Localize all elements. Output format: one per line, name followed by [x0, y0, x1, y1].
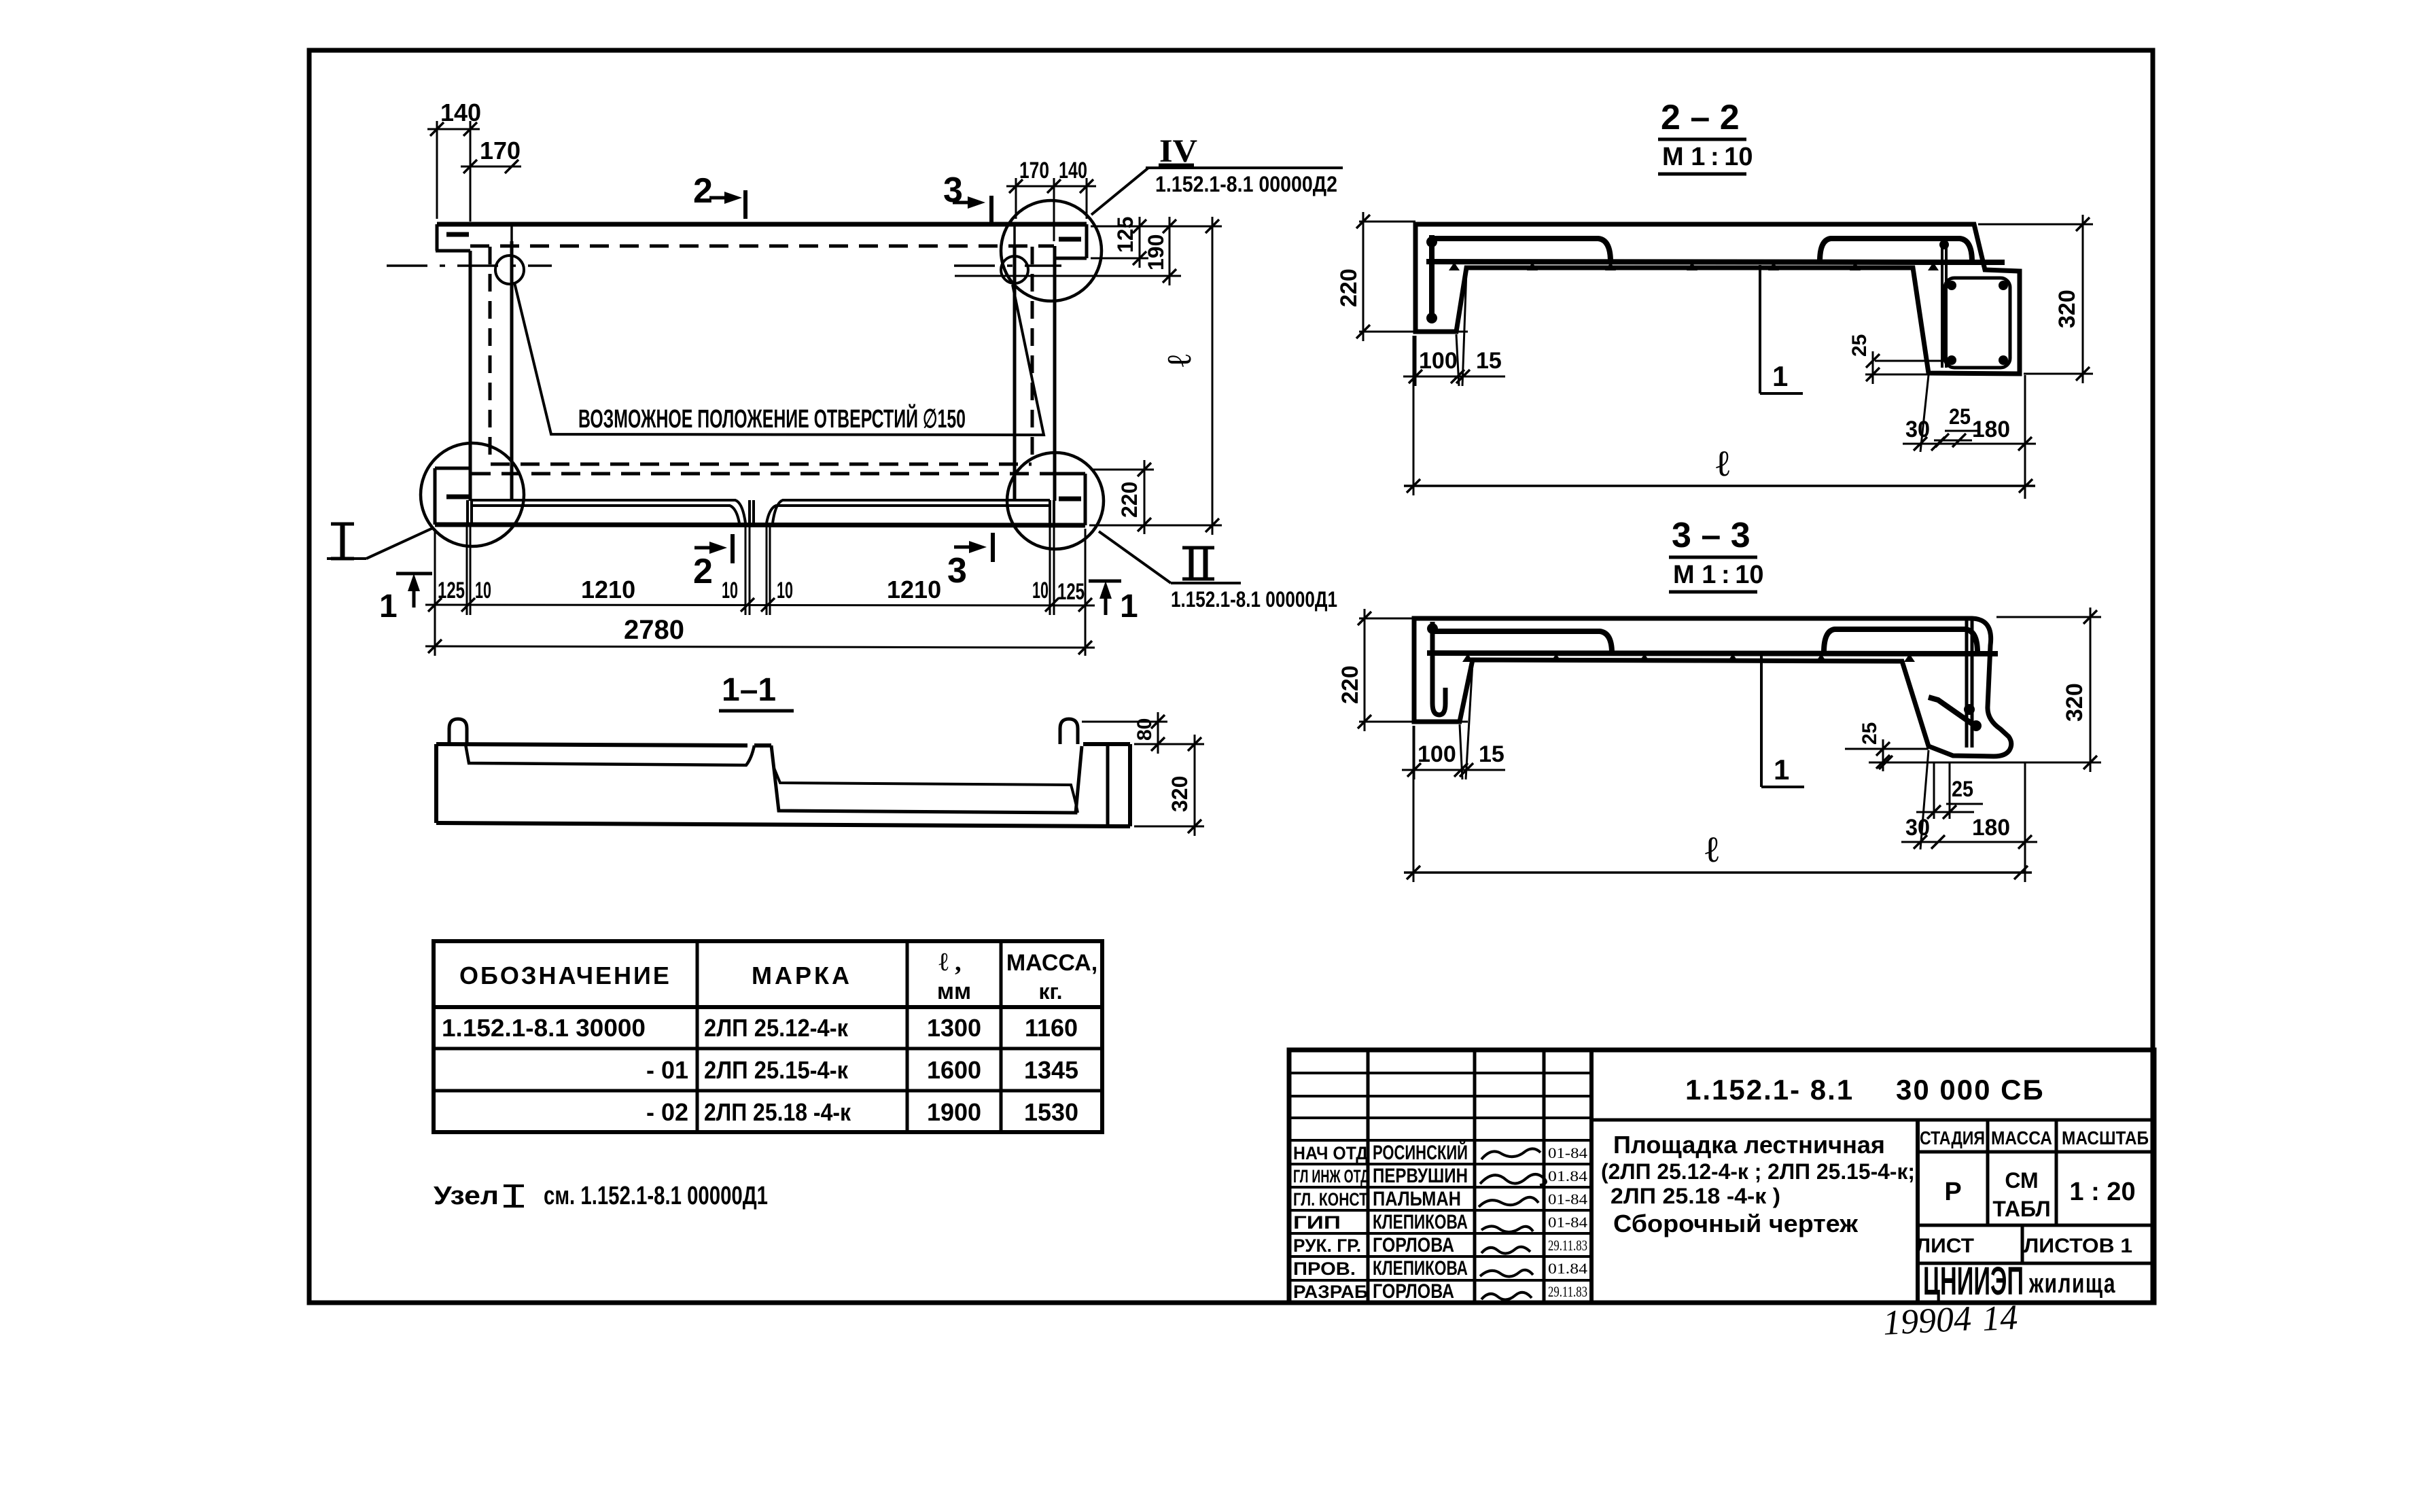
node II callout [1099, 531, 1171, 583]
3-3 vertical bar pair in rib [1965, 620, 1969, 748]
svg-text:10: 10 [1032, 578, 1049, 603]
svg-text:1: 1 [1772, 360, 1788, 392]
2-2 pos.1 leader [1759, 265, 1761, 393]
detail circle IV (top right) [1001, 200, 1102, 301]
node I callout [366, 528, 433, 559]
svg-text:100: 100 [1418, 741, 1456, 767]
slot 2 (right recess opening) [767, 506, 1050, 523]
svg-text:ПРОВ.: ПРОВ. [1293, 1259, 1356, 1279]
svg-text:2ЛП 25.12-4-к: 2ЛП 25.12-4-к [704, 1014, 849, 1042]
2-2 dims 30 / 180 [1920, 375, 1929, 452]
section 1-1 outline [436, 744, 747, 745]
svg-text:19904: 19904 [1882, 1299, 1973, 1343]
list row [2021, 1225, 2024, 1263]
svg-text:Р: Р [1944, 1178, 1961, 1206]
sheet frame [309, 50, 2153, 1303]
3-3 top bar left [1432, 631, 1612, 653]
svg-text:01-84: 01-84 [1548, 1214, 1587, 1231]
svg-text:СМ: СМ [2005, 1168, 2038, 1193]
hole position circle right [1001, 256, 1028, 283]
svg-text:1530: 1530 [1024, 1098, 1078, 1126]
svg-text:25: 25 [1848, 334, 1871, 357]
svg-text:кг.: кг. [1038, 979, 1062, 1004]
svg-text:ОБОЗНАЧЕНИЕ: ОБОЗНАЧЕНИЕ [459, 962, 671, 989]
svg-text:НАЧ ОТД: НАЧ ОТД [1293, 1143, 1368, 1163]
svg-text:125: 125 [1057, 579, 1085, 605]
svg-text:Площадка лестничная: Площадка лестничная [1613, 1131, 1885, 1159]
3-3 dims 100 / 15 [1413, 726, 1415, 779]
svg-text:320: 320 [1167, 776, 1192, 812]
dim 2780 [425, 646, 1095, 648]
svg-text:2: 2 [693, 552, 713, 591]
svg-text:мм: мм [937, 979, 971, 1004]
dim 170/140 (top right) [1015, 178, 1017, 219]
2-2 dim 220 [1359, 221, 1415, 223]
svg-text:2: 2 [693, 171, 713, 211]
svg-text:01.84: 01.84 [1548, 1260, 1587, 1277]
svg-text:РУК. ГР.: РУК. ГР. [1293, 1235, 1361, 1256]
svg-text:3 – 3: 3 – 3 [1672, 516, 1750, 555]
svg-text:25: 25 [1859, 722, 1881, 745]
section mark 1 (left) [396, 572, 432, 576]
dim 140 (top left) [436, 121, 438, 219]
svg-text:М 1 : 10: М 1 : 10 [1673, 561, 1763, 589]
3-3 dim l [1413, 726, 1415, 882]
2-2 reinforcement: left vertical bar [1429, 235, 1435, 323]
svg-text:100: 100 [1419, 348, 1458, 374]
dim 320 (section 1-1) [1134, 743, 1204, 745]
svg-text:1345: 1345 [1024, 1056, 1078, 1084]
3-3 pos.1 leader [1760, 656, 1763, 787]
svg-text:125: 125 [438, 578, 465, 603]
svg-text:(2ЛП 25.12-4-к ; 2ЛП 25.15-4-: (2ЛП 25.12-4-к ; 2ЛП 25.15-4-к; [1601, 1159, 1915, 1184]
slot 1 (left recess opening) [466, 500, 469, 523]
svg-text:2ЛП 25.18 -4-к ): 2ЛП 25.18 -4-к ) [1611, 1184, 1780, 1208]
svg-text:3: 3 [947, 551, 967, 591]
3-3 long bar [1427, 653, 1998, 654]
svg-text:30: 30 [1905, 417, 1930, 442]
svg-text:ПЕРВУШИН: ПЕРВУШИН [1373, 1165, 1468, 1187]
svg-text:14: 14 [1982, 1298, 2019, 1339]
svg-text:1 : 20: 1 : 20 [2069, 1178, 2135, 1206]
svg-text:МАРКА: МАРКА [752, 962, 852, 989]
node IV callout [1091, 168, 1148, 215]
svg-text:29.11.83: 29.11.83 [1548, 1237, 1587, 1254]
svg-text:10: 10 [475, 578, 491, 603]
svg-text:220: 220 [1337, 665, 1363, 704]
detail circle II (bottom right) [1007, 453, 1104, 549]
dim 170 (top left) [461, 166, 521, 168]
centerline through right hole position [954, 264, 1061, 267]
svg-text:1900: 1900 [927, 1098, 981, 1126]
right end inner edge [1106, 744, 1110, 826]
svg-text:1.152.1-8.1 30000: 1.152.1-8.1 30000 [442, 1014, 646, 1042]
svg-text:01.84: 01.84 [1548, 1167, 1587, 1184]
svg-text:МАССА,: МАССА, [1006, 950, 1097, 976]
svg-text:ГОРЛОВА: ГОРЛОВА [1373, 1280, 1454, 1303]
svg-text:15: 15 [1476, 348, 1502, 374]
left lifting loop [449, 719, 467, 744]
svg-text:ЛИСТ: ЛИСТ [1916, 1235, 1974, 1257]
svg-text:25: 25 [1949, 404, 1971, 429]
svg-text:1–1: 1–1 [722, 672, 776, 708]
svg-text:180: 180 [1972, 815, 2010, 841]
svg-text:ГИП: ГИП [1293, 1212, 1341, 1233]
2-2 vertical bar pair in rib [1941, 239, 1943, 368]
3-3 dim 220 [1359, 618, 1414, 620]
svg-text:ТАБЛ: ТАБЛ [1992, 1197, 2050, 1221]
2-2 long bar [1426, 262, 2005, 262]
3-3 diagonal anchor bar [1929, 697, 1979, 728]
section 2-2 body outline [1415, 224, 2020, 374]
svg-text:жилища: жилища [2028, 1269, 2116, 1299]
section mark 1 (right) [1089, 580, 1121, 583]
svg-text:ГЛ ИНЖ ОТД: ГЛ ИНЖ ОТД [1293, 1166, 1369, 1186]
svg-text:01-84: 01-84 [1548, 1191, 1587, 1208]
svg-text:2ЛП 25.18 -4-к: 2ЛП 25.18 -4-к [704, 1098, 851, 1126]
svg-text:140: 140 [1059, 158, 1087, 183]
bottom dimension row: 125 10 1210 10 ~ 10 1210 10 125 [434, 529, 436, 656]
centerline through left hole position [387, 264, 552, 267]
svg-text:ℓ: ℓ [1716, 443, 1729, 484]
svg-text:М 1 : 10: М 1 : 10 [1662, 143, 1753, 171]
svg-text:25: 25 [1952, 777, 1973, 801]
svg-text:1: 1 [1774, 754, 1789, 786]
left rib (plan) [469, 251, 472, 501]
svg-text:140: 140 [440, 99, 481, 126]
callout leader trapezoid for hole positions [514, 283, 1044, 435]
svg-text:ВОЗМОЖНОЕ ПОЛОЖЕНИЕ ОТВЕРСТИЙ: ВОЗМОЖНОЕ ПОЛОЖЕНИЕ ОТВЕРСТИЙ ∅150 [578, 403, 966, 434]
dim 125 (right of top band) [1091, 226, 1155, 228]
svg-text:10: 10 [722, 578, 738, 603]
dim l (plan right side) [1091, 226, 1222, 228]
svg-text:180: 180 [1972, 417, 2010, 442]
right recess (deeper trough) [771, 745, 1082, 813]
svg-text:1210: 1210 [581, 576, 635, 603]
hole position circle left [495, 256, 524, 284]
svg-text:30 000 СБ: 30 000 СБ [1896, 1074, 2045, 1106]
2-2 dim 25 (cover, vertical) [1875, 360, 1945, 362]
stage/mass/scale grid [1916, 1120, 1920, 1303]
svg-text:Сборочный чертеж: Сборочный чертеж [1613, 1210, 1858, 1237]
svg-text:- 01: - 01 [646, 1056, 688, 1084]
svg-text:ℓ ,: ℓ , [938, 948, 961, 977]
svg-text:2ЛП 25.15-4-к: 2ЛП 25.15-4-к [704, 1056, 849, 1084]
svg-text:220: 220 [1117, 482, 1142, 518]
svg-text:190: 190 [1144, 234, 1168, 270]
3-3 dim 320 [1996, 616, 2101, 618]
svg-text:1300: 1300 [927, 1014, 981, 1042]
svg-text:320: 320 [2062, 683, 2088, 722]
specification table [434, 941, 1102, 1132]
2-2 top bar left [1432, 239, 1611, 262]
dim 190 (right of top band) [955, 275, 1181, 277]
svg-text:ЛИСТОВ 1: ЛИСТОВ 1 [2024, 1235, 2132, 1257]
svg-text:15: 15 [1479, 741, 1504, 767]
3-3 top bar right [1824, 629, 1977, 652]
dim 80 (section 1-1) [1082, 721, 1167, 723]
plan bottom band (slab edge) [434, 468, 437, 525]
svg-text:10: 10 [777, 578, 793, 603]
svg-text:- 02: - 02 [646, 1098, 688, 1126]
weld mark bottom-right [1059, 497, 1081, 502]
svg-text:ПАЛЬМАН: ПАЛЬМАН [1373, 1188, 1461, 1210]
svg-text:КЛЕПИКОВА: КЛЕПИКОВА [1373, 1211, 1468, 1233]
svg-text:220: 220 [1336, 268, 1362, 307]
left recess [465, 744, 754, 765]
svg-text:ЦНИИЭП: ЦНИИЭП [1923, 1259, 2024, 1303]
svg-text:80: 80 [1133, 718, 1156, 741]
svg-text:ℓ: ℓ [1705, 829, 1719, 870]
svg-text:ℓ: ℓ [1160, 354, 1198, 367]
2-2 dim 320 [1978, 224, 2093, 226]
svg-text:1160: 1160 [1025, 1014, 1078, 1042]
signature grid verticals [1367, 1050, 1370, 1303]
svg-text:125: 125 [1113, 217, 1138, 253]
svg-text:ГЛ. КОНСТ: ГЛ. КОНСТ [1293, 1189, 1368, 1210]
svg-text:29.11.83: 29.11.83 [1548, 1283, 1587, 1300]
signature grid horizontals [1289, 1072, 1591, 1074]
2-2 top bar right [1820, 239, 1972, 262]
svg-text:1.152.1-8.1 00000Д1: 1.152.1-8.1 00000Д1 [1171, 587, 1337, 612]
svg-text:МАССА: МАССА [1991, 1127, 2052, 1148]
detail circle I (bottom left) [421, 443, 524, 546]
weld mark bottom-left [446, 495, 469, 499]
weld mark top-right [1059, 237, 1081, 242]
svg-text:1: 1 [1120, 588, 1138, 625]
signatures (squiggles) [1481, 1148, 1541, 1159]
3-3 reinforcement: left vertical bar with hook [1432, 622, 1445, 715]
svg-text:01-84: 01-84 [1548, 1144, 1587, 1161]
2-2 dim l [1413, 336, 1415, 495]
handwritten sheet number [1882, 1298, 2019, 1343]
svg-text:МАСШТАБ: МАСШТАБ [2062, 1127, 2149, 1148]
3-3 rib bottom reference line [1869, 762, 2100, 764]
svg-text:170: 170 [480, 137, 521, 164]
svg-text:РАЗРАБ: РАЗРАБ [1293, 1282, 1368, 1302]
3-3 dims 30 / 180 [1920, 750, 1929, 849]
2-2 stirrup hoop [1945, 278, 2010, 368]
plan view: top band (landing nosing edge) [437, 222, 1087, 227]
svg-text:30: 30 [1905, 815, 1930, 841]
svg-text:см. 1.152.1-8.1 00000Д1: см. 1.152.1-8.1 00000Д1 [544, 1182, 768, 1210]
svg-text:1600: 1600 [927, 1056, 981, 1084]
svg-text:РОСИНСКИЙ: РОСИНСКИЙ [1373, 1141, 1468, 1164]
svg-text:КЛЕПИКОВА: КЛЕПИКОВА [1373, 1257, 1468, 1280]
svg-text:1: 1 [379, 588, 398, 625]
svg-text:Узел: Узел [434, 1182, 499, 1210]
svg-text:1.152.1- 8.1: 1.152.1- 8.1 [1685, 1074, 1854, 1106]
svg-text:2780: 2780 [624, 615, 684, 645]
right rib (plan) [1013, 246, 1017, 501]
3-3 dim 25 (vertical) [1845, 748, 1929, 750]
weld mark top-left [446, 232, 469, 237]
title block outer [1289, 1050, 2154, 1303]
2-2 dims 100 / 15 [1415, 336, 1417, 386]
section 3-3 body outline [1414, 618, 2011, 756]
svg-text:2 – 2: 2 – 2 [1661, 98, 1740, 137]
right lifting loop [1060, 719, 1078, 744]
svg-text:ГОРЛОВА: ГОРЛОВА [1373, 1234, 1454, 1256]
dim 220 (plan bottom right) [1091, 469, 1154, 471]
svg-text:1210: 1210 [887, 576, 941, 603]
svg-text:СТАДИЯ: СТАДИЯ [1920, 1127, 1985, 1148]
svg-text:1.152.1-8.1 00000Д2: 1.152.1-8.1 00000Д2 [1155, 172, 1337, 196]
svg-text:170: 170 [1019, 158, 1049, 183]
svg-text:320: 320 [2054, 289, 2080, 328]
